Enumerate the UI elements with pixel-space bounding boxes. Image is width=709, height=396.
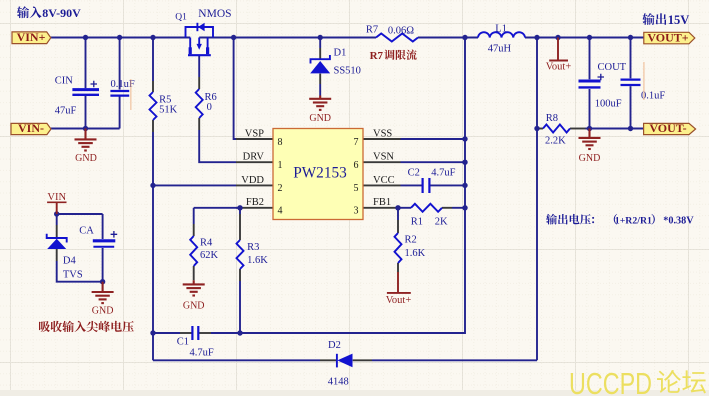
- svg-text:1+R2/R1: 1+R2/R1: [615, 216, 652, 227]
- wire C2 right plate to bus: [431, 184, 466, 186]
- wire R4 bottom lead: [193, 266, 195, 280]
- watermark UCCPD forum: [569, 366, 706, 396]
- pin name VSP: [245, 128, 264, 139]
- junction: [628, 35, 633, 40]
- wire VSP vertical from rail to pin 8: [234, 38, 273, 140]
- svg-text:NMOS: NMOS: [198, 8, 231, 20]
- svg-text:2: 2: [278, 183, 283, 194]
- capacitor 0.1uF input: [110, 79, 134, 96]
- svg-text:VDD: VDD: [241, 175, 264, 186]
- svg-text:L1: L1: [495, 23, 507, 34]
- svg-text:R4: R4: [200, 237, 213, 248]
- svg-text:COUT: COUT: [598, 62, 627, 73]
- svg-text:0.06Ω: 0.06Ω: [388, 26, 414, 37]
- label R7 current-limit annotation: [370, 50, 417, 62]
- wire D1 anode to GND: [319, 74, 321, 96]
- wire CIN leads: [85, 38, 87, 129]
- svg-text:VOUT-: VOUT-: [649, 121, 686, 135]
- svg-text:4.7uF: 4.7uF: [431, 168, 455, 179]
- svg-text:R7: R7: [366, 24, 378, 35]
- svg-text:Q1: Q1: [175, 13, 187, 23]
- wire R6 bottom to DRV pin 1: [199, 118, 273, 162]
- resistor R7 0.06ohm: [366, 24, 418, 41]
- svg-text:D1: D1: [334, 47, 347, 58]
- svg-text:2K: 2K: [435, 216, 448, 227]
- port VIN+: [12, 30, 51, 44]
- label output formula: [546, 214, 694, 227]
- svg-text:100uF: 100uF: [595, 99, 622, 110]
- junction: [462, 35, 467, 40]
- pin name FB2: [246, 197, 264, 208]
- svg-text:4.7uF: 4.7uF: [190, 347, 214, 358]
- svg-text:CA: CA: [79, 226, 94, 237]
- svg-text:VCC: VCC: [373, 175, 395, 186]
- IC U1 PW2153: [273, 129, 363, 220]
- junction: [462, 136, 467, 141]
- svg-text:GND: GND: [183, 301, 205, 312]
- svg-text:CIN: CIN: [55, 76, 74, 87]
- svg-text:8: 8: [278, 137, 283, 148]
- capacitor C2 4.7uF: [408, 168, 456, 193]
- wire VSN pin 6 to right bus: [363, 161, 465, 163]
- junction: [117, 35, 122, 40]
- svg-text:UCCPD: UCCPD: [569, 366, 652, 396]
- svg-text:GND: GND: [309, 113, 331, 124]
- capacitor C1 4.7uF: [177, 326, 214, 358]
- svg-text:C2: C2: [408, 168, 420, 179]
- svg-text:1: 1: [278, 160, 283, 171]
- port VIN-: [11, 121, 51, 135]
- svg-text:R1: R1: [411, 216, 423, 227]
- label input voltage title: [17, 6, 81, 20]
- ground GND (R4): [183, 280, 205, 311]
- svg-text:4: 4: [278, 206, 283, 217]
- svg-text:GND: GND: [75, 153, 97, 164]
- svg-text:SS510: SS510: [334, 65, 361, 76]
- pin name FB1: [373, 197, 391, 208]
- svg-text:C1: C1: [177, 336, 189, 347]
- svg-text:6: 6: [354, 160, 359, 171]
- wire FB1 pin 3 stub: [363, 207, 401, 209]
- wire input 0.1uF leads: [119, 38, 121, 129]
- wire R3 top lead: [239, 208, 241, 240]
- junction: [83, 35, 88, 40]
- wire VCC pin 5 to C2: [363, 184, 422, 186]
- svg-text:3: 3: [354, 206, 359, 217]
- resistor R2 1.6K: [395, 233, 426, 263]
- junction: [237, 205, 242, 210]
- svg-text:TVS: TVS: [63, 270, 83, 281]
- wire rail L1 to VOUT+ port: [525, 37, 644, 39]
- label output voltage title: [642, 13, 689, 27]
- svg-text:D2: D2: [328, 340, 341, 351]
- svg-text:8V-90V: 8V-90V: [42, 6, 81, 20]
- svg-text:VSP: VSP: [245, 128, 264, 139]
- junction: [318, 35, 323, 40]
- wire R2 top lead: [397, 208, 399, 233]
- junction: [83, 126, 88, 131]
- svg-text:PW2153: PW2153: [293, 164, 347, 181]
- wire C1 left lead: [153, 332, 192, 334]
- pin name VSS: [373, 128, 392, 139]
- port VOUT+: [644, 30, 695, 44]
- pin name DRV: [243, 152, 265, 163]
- wire VIN- rail: [51, 128, 120, 130]
- svg-text:7: 7: [354, 137, 359, 148]
- junction: [100, 279, 105, 284]
- wire output node vertical x537: [536, 38, 538, 361]
- power port VIN (TVS): [47, 192, 66, 214]
- wire R5 top lead: [152, 38, 154, 93]
- transistor Q1 NMOS: [175, 8, 231, 55]
- wire R3 bottom to C1 line: [239, 269, 241, 333]
- svg-text:VSN: VSN: [373, 152, 394, 163]
- junction: [462, 183, 467, 188]
- svg-text:47uF: 47uF: [55, 106, 77, 117]
- junction: [534, 35, 539, 40]
- svg-text:0: 0: [207, 102, 212, 113]
- inductor L1 47uH: [478, 23, 525, 54]
- resistor R3 1.6K: [237, 240, 269, 269]
- svg-text:*0.38V: *0.38V: [663, 216, 694, 227]
- junction: [150, 330, 155, 335]
- junction: [462, 205, 467, 210]
- svg-text:5: 5: [354, 183, 359, 194]
- ground GND (input): [75, 129, 97, 165]
- junction: [628, 126, 633, 131]
- wire R5 bottom / VDD net vertical down to C1 line: [152, 120, 154, 333]
- junction: [587, 126, 592, 131]
- capacitor CA: [79, 226, 117, 247]
- svg-text:FB2: FB2: [246, 197, 264, 208]
- svg-text:VSS: VSS: [373, 128, 392, 139]
- svg-text:R8: R8: [546, 113, 558, 124]
- wire VSS pin 7 to right bus: [363, 138, 465, 140]
- wire FB1 node to R1 left: [398, 207, 411, 209]
- junction: [462, 160, 467, 165]
- wire D1 top lead: [319, 38, 321, 59]
- svg-text:VIN+: VIN+: [17, 30, 46, 44]
- svg-text:FB1: FB1: [373, 197, 391, 208]
- wire TVS subcircuit: [57, 214, 103, 282]
- pin name VCC: [373, 175, 395, 186]
- ground GND (D1): [309, 96, 331, 125]
- junction: [555, 35, 560, 40]
- capacitor COUT 100uF: [579, 62, 627, 110]
- wire COUT leads: [589, 38, 591, 129]
- svg-text:1.6K: 1.6K: [247, 255, 268, 266]
- svg-text:2.2K: 2.2K: [545, 136, 566, 147]
- svg-text:GND: GND: [92, 305, 114, 316]
- svg-text:Vout+: Vout+: [546, 61, 572, 72]
- resistor R8 2.2K: [543, 113, 570, 147]
- svg-text:GND: GND: [579, 153, 601, 164]
- pin name VSN: [373, 152, 394, 163]
- svg-text:47uH: 47uH: [488, 44, 512, 55]
- junction: [150, 35, 155, 40]
- wire C1 right lead: [198, 332, 240, 334]
- svg-text:VIN-: VIN-: [18, 121, 44, 135]
- capacitor 0.1uF output: [621, 80, 666, 102]
- wire rail from NMOS source to R7: [199, 37, 376, 39]
- label TVS annotation: [39, 321, 134, 332]
- junction: [150, 183, 155, 188]
- ground GND (output): [579, 129, 601, 164]
- svg-text:DRV: DRV: [243, 152, 265, 163]
- junction: [237, 330, 242, 335]
- wire VDD horizontal to pin 2: [153, 184, 273, 186]
- junction: [54, 211, 59, 216]
- wire FB2 pin 4 to R4/R3: [194, 208, 273, 236]
- wire output 0.1uF leads: [630, 38, 632, 129]
- wire VIN+ rail left segment: [51, 37, 191, 39]
- resistor R4 62K: [190, 236, 218, 266]
- svg-text:R3: R3: [247, 242, 259, 253]
- diode D4 TVS: [47, 234, 83, 281]
- svg-text:R2: R2: [405, 235, 417, 246]
- wire R8 left lead: [537, 128, 543, 130]
- resistor R5 51K: [150, 92, 178, 120]
- port VOUT-: [644, 121, 696, 135]
- wire R8 right to VOUT- port: [570, 128, 644, 130]
- svg-text:4148: 4148: [328, 377, 349, 388]
- resistor R1 2K: [411, 204, 448, 228]
- wire bottom-left vertical and D2 bottom line: [153, 333, 537, 360]
- wire Q1 gate to R6: [198, 55, 200, 89]
- svg-text:D4: D4: [63, 255, 77, 266]
- resistor R6 0: [196, 89, 217, 118]
- svg-text:1.6K: 1.6K: [405, 248, 426, 259]
- wire right bus vertical SW node down to C1 line: [240, 38, 465, 334]
- svg-text:15V: 15V: [668, 13, 690, 27]
- wire rail R7 to L1: [418, 37, 478, 39]
- wire R1 right to bus: [442, 207, 465, 209]
- svg-text:51K: 51K: [159, 105, 178, 116]
- svg-text:R7: R7: [370, 50, 384, 62]
- diode D2 4148: [328, 340, 353, 388]
- power port Vout+ (top): [546, 38, 572, 73]
- pin name VDD: [241, 175, 264, 186]
- junction: [534, 126, 539, 131]
- svg-text:Vout+: Vout+: [386, 295, 412, 306]
- svg-text:VOUT+: VOUT+: [647, 30, 688, 44]
- ground GND (CA): [92, 282, 114, 317]
- junction: [587, 35, 592, 40]
- junction: [231, 35, 236, 40]
- power port Vout+ (R2 bottom): [386, 272, 412, 306]
- capacitor CIN 47uF: [55, 76, 99, 117]
- svg-text:62K: 62K: [200, 250, 219, 261]
- junction: [395, 205, 400, 210]
- diode D1 SS510: [310, 47, 361, 76]
- wire R2 bottom lead: [397, 263, 399, 272]
